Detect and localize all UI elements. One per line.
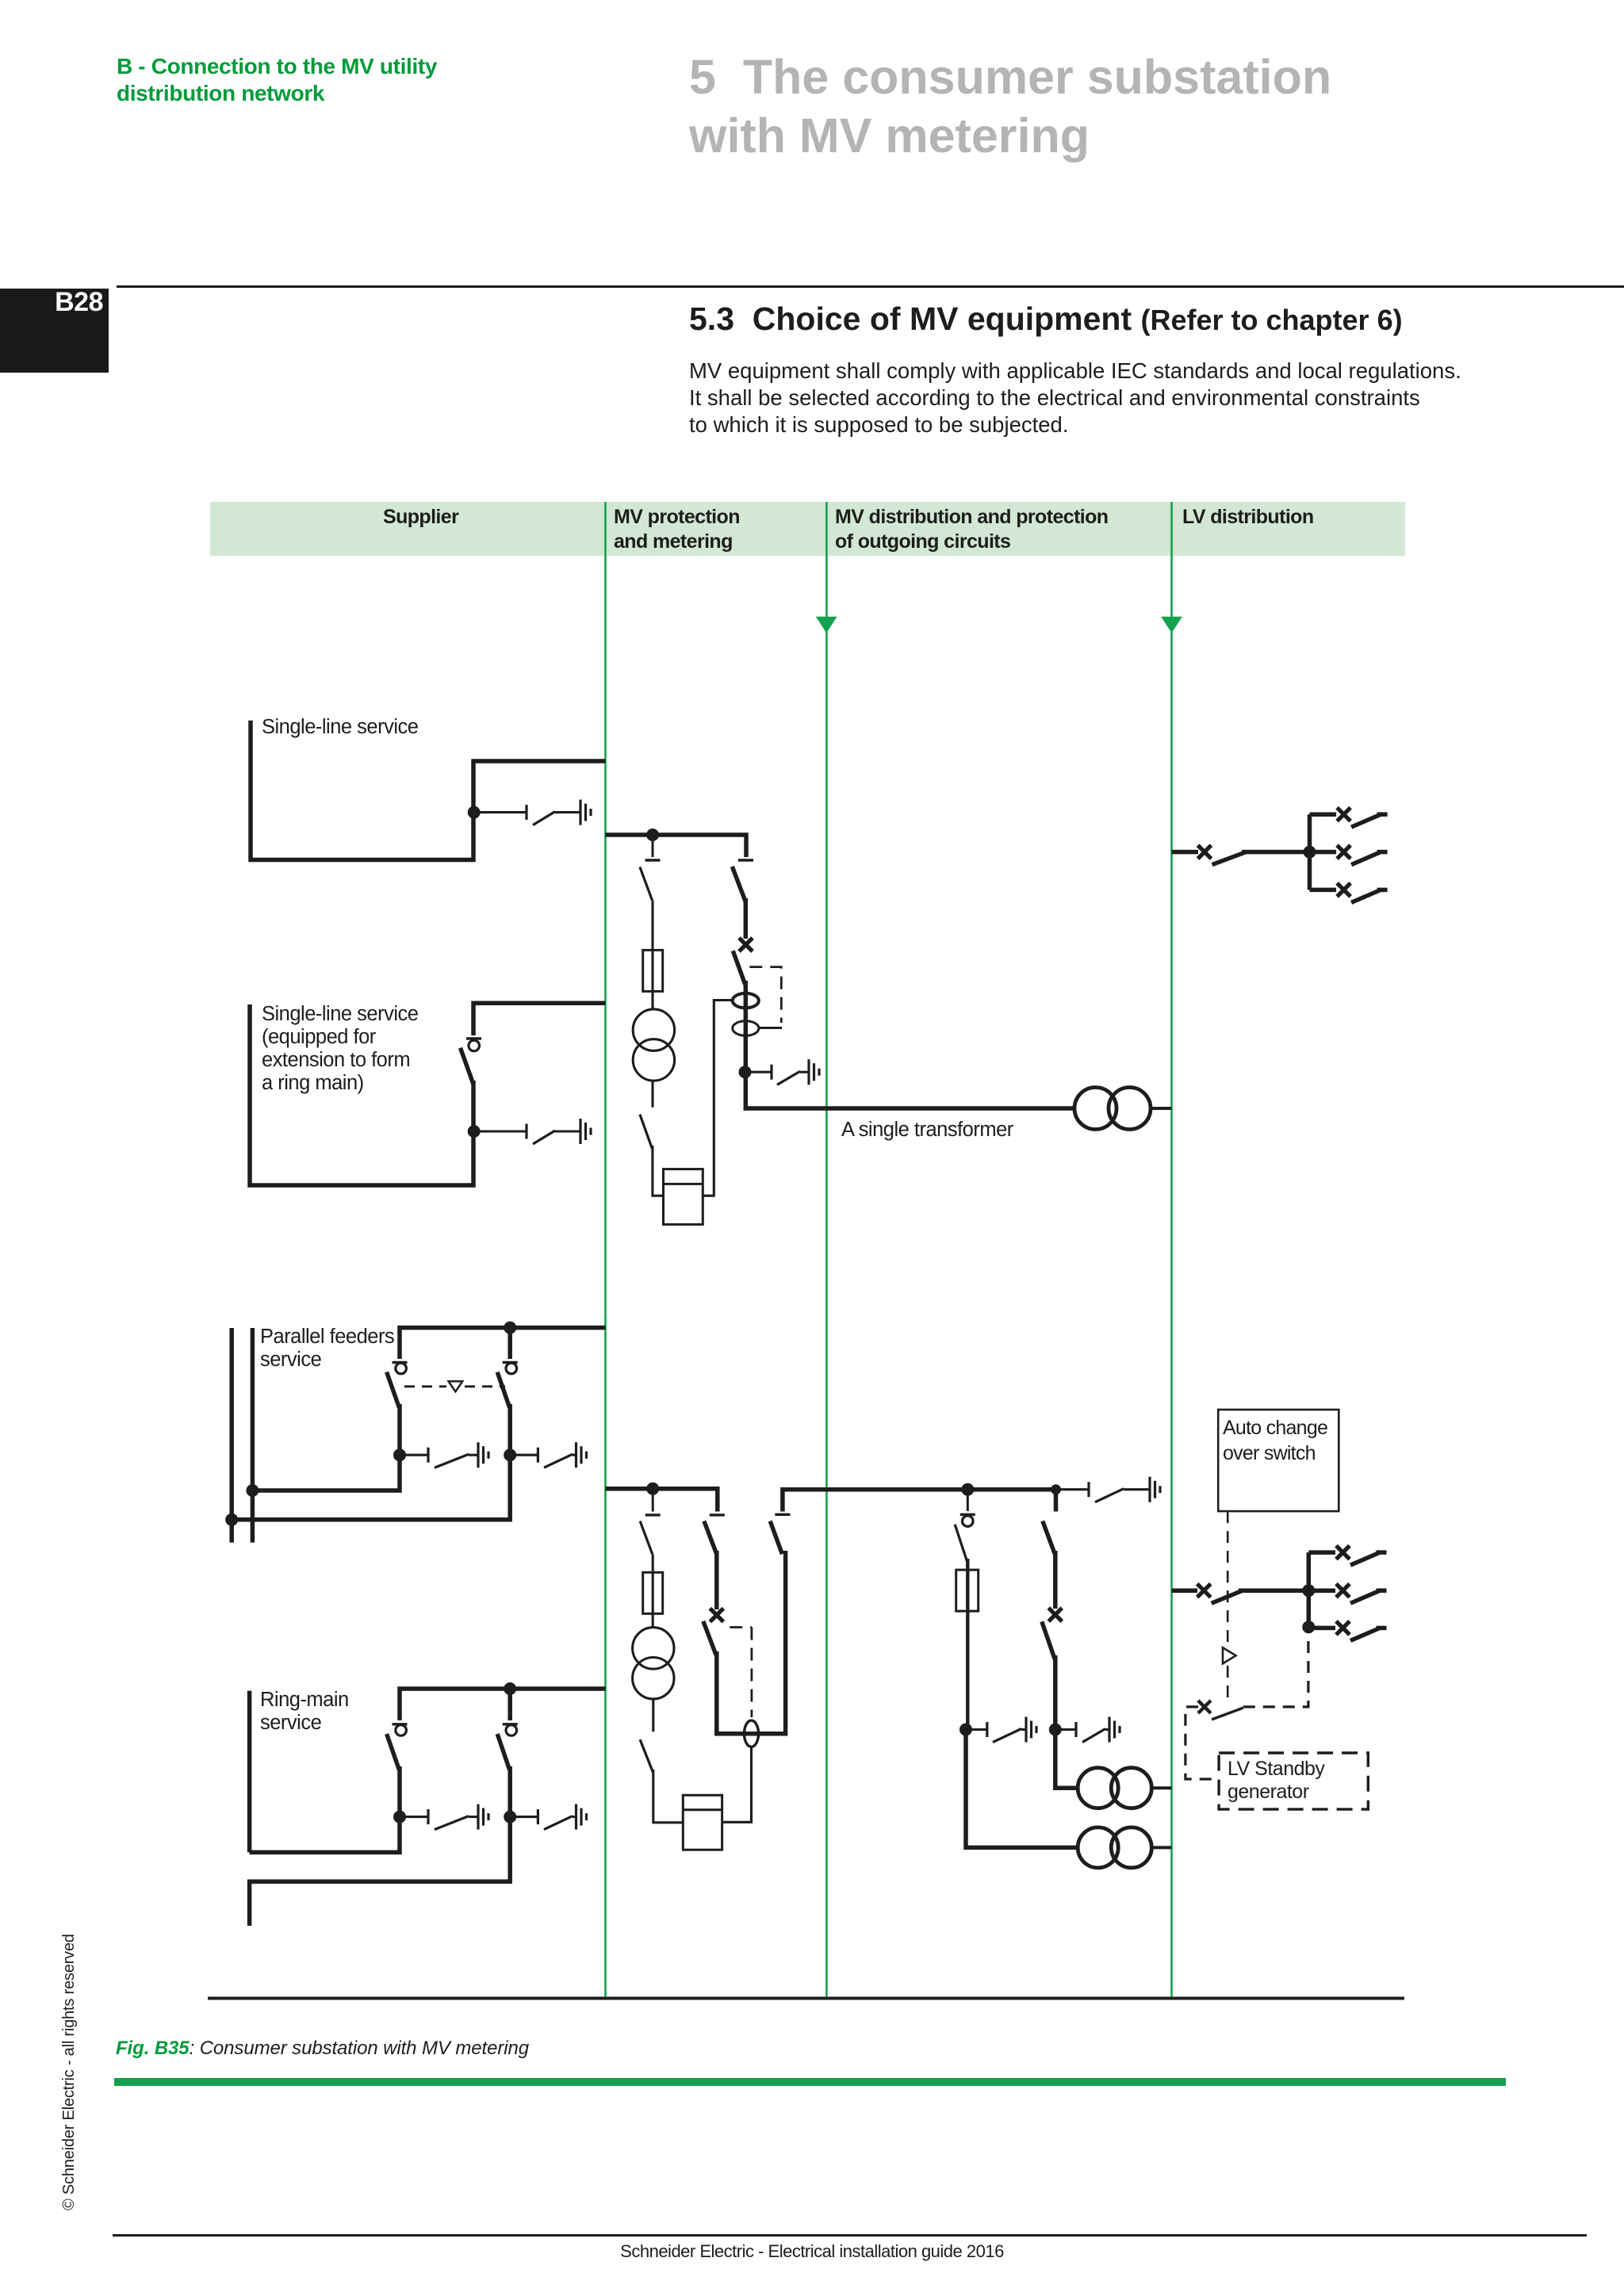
wire: single-line service 2 loop: [250, 1004, 473, 1185]
breaker chain (distribution feeder 2): [1043, 1521, 1055, 1609]
column divider line (Supplier / MV protection): [604, 502, 607, 1998]
wire: feeder 1 to transformer b: [966, 1730, 1078, 1848]
current transformer (row 2): [745, 1720, 759, 1747]
energy meter row 2: [683, 1795, 722, 1850]
node: ring chain B: [504, 1811, 516, 1823]
busbar: MV metering row 1: [606, 835, 747, 857]
transformer a (feeder 2): [1078, 1768, 1151, 1808]
node: parallel chain A: [393, 1448, 406, 1461]
diagram bottom rule: [208, 1997, 1404, 2000]
wire: VT to meter row 2: [653, 1770, 684, 1823]
transformer (single): [1074, 1088, 1151, 1130]
node: LV bus row 2: [1302, 1584, 1315, 1597]
wire: LV bus row 2: [1239, 1588, 1308, 1593]
node: service 2 junction: [468, 1125, 481, 1138]
node: metering bus row 2: [646, 1483, 659, 1495]
disconnector below VT row 2: [640, 1699, 653, 1773]
LV incoming blade row 1: [1212, 852, 1246, 865]
earthing switch (ring chain B): [510, 1804, 586, 1830]
LV feeder 2 (row 2): [1308, 1584, 1386, 1604]
dashed relay boundary row 1: [749, 967, 781, 1023]
earthing switch (service 2): [474, 1119, 591, 1144]
current transformer CT1 row 1: [733, 993, 759, 1008]
switch with open point (parallel chain B): [497, 1362, 518, 1455]
wire: parallel chain A tail: [252, 1455, 400, 1490]
wire: transformer a to LV: [1151, 1786, 1171, 1789]
dashed relay boundary row 2: [730, 1626, 752, 1628]
node: breaker output row 1: [739, 1066, 752, 1078]
breaker X (feeder 2): [1048, 1608, 1062, 1621]
busbar: MV distribution row 2: [783, 1490, 1056, 1512]
busbar: MV metering row 2: [606, 1489, 718, 1512]
fused switch chain (distribution feeder 1): [955, 1490, 975, 1570]
mechanical interlock dashed link: [404, 1385, 446, 1387]
voltage transformer row 2: [633, 1628, 674, 1699]
LV feeder 2 (row 1): [1310, 845, 1388, 865]
CT secondary wire to meter row 1: [703, 1001, 732, 1196]
earthing switch (feeder 1): [966, 1717, 1036, 1743]
junction: chain A tail on feeder B: [246, 1484, 259, 1497]
wire: feeder to single transformer: [745, 1069, 1074, 1108]
node: changeover tap on LV bus: [1302, 1621, 1315, 1633]
node: parallel top bus junction: [504, 1322, 516, 1334]
wire: feeder 2 to transformer a: [1055, 1730, 1078, 1789]
voltage transformer row 1: [633, 1009, 674, 1081]
wire: ring-main top bus: [400, 1689, 606, 1720]
marker triangle on LV distribution divider: [1161, 617, 1182, 633]
wire: ring chain B drop: [507, 1689, 512, 1720]
control dashed line from box: [1227, 1511, 1229, 1644]
riser contact and blade (bus tie row 2): [770, 1514, 790, 1554]
wire: transformer b to LV: [1151, 1846, 1171, 1849]
transformer b (feeder 1): [1078, 1827, 1151, 1868]
LV feeder 1 (row 2): [1308, 1546, 1386, 1566]
switch with open point (ring chain B): [497, 1724, 518, 1817]
switch with open point (ring chain A): [387, 1724, 408, 1817]
LV incoming breaker X row 1: [1198, 845, 1212, 859]
wire: VT to meter row 1: [653, 1146, 664, 1196]
changeover blade: [1212, 1708, 1243, 1720]
node: ring chain A: [393, 1811, 406, 1823]
node: service 1 junction: [468, 806, 481, 819]
wire: service 2 top link: [473, 1003, 606, 1035]
breaker blade (feeder 2): [1042, 1621, 1055, 1659]
CT secondary wire to meter row 2: [722, 1747, 752, 1823]
fuse (VT branch row 1): [643, 950, 663, 1009]
wire: parallel feeder B: [251, 1328, 255, 1543]
wire: parallel chain B drop: [507, 1328, 512, 1359]
earthing switch (distribution bus row 2): [1056, 1477, 1161, 1502]
LV feeder 3 (row 1): [1310, 883, 1388, 903]
wire: transformer to LV column: [1151, 1107, 1172, 1110]
current transformer CT2 row 1: [733, 1021, 759, 1035]
wire: breaker U-link row 2: [717, 1551, 786, 1734]
LV standby generator dashed box: [1219, 1753, 1368, 1809]
wire: LV riser row 1: [1308, 814, 1312, 890]
wire: single-line service incoming: [251, 721, 606, 860]
column divider line (MV protection / MV distribution): [825, 502, 828, 1998]
node: parallel chain B: [504, 1448, 516, 1461]
node: LV bus row 1: [1304, 846, 1316, 859]
node: distribution bus right end: [1051, 1484, 1061, 1494]
breaker X row 1: [739, 938, 753, 951]
node: metering bus row 1: [646, 828, 659, 841]
node: ring top bus junction: [504, 1682, 516, 1695]
earthing switch (service 1): [474, 800, 591, 825]
wire: parallel feeder A: [229, 1328, 234, 1543]
disconnector switch (service 2): [461, 1039, 482, 1131]
wire: parallel chain B tail: [232, 1455, 510, 1520]
disconnector below VT row 1: [640, 1081, 653, 1149]
wire: feeder 2 down: [1053, 1655, 1058, 1730]
control arrow triangle: [1223, 1647, 1236, 1663]
switch with open point (parallel chain A): [387, 1362, 408, 1455]
LV incoming blade row 2: [1212, 1591, 1243, 1604]
node: distribution feeder 1 tap: [961, 1483, 974, 1496]
node: feeder 2 earthing point: [1049, 1724, 1062, 1736]
circuit-breaker branch row 2: contact and blade: [704, 1515, 725, 1609]
column divider line (MV distribution / LV distribution): [1170, 502, 1173, 1998]
LV incoming row 2: [1172, 1588, 1198, 1593]
earthing switch (parallel chain A): [400, 1442, 488, 1468]
breaker X row 2: [710, 1609, 723, 1622]
fuse (distribution feeder 1): [956, 1570, 979, 1611]
node: feeder 1 earthing point: [959, 1724, 972, 1736]
CT2 secondary stub row 1: [759, 1027, 782, 1029]
wire: ring-main incoming: [247, 1691, 252, 1853]
earthing switch (parallel chain B): [510, 1442, 586, 1468]
earthing switch (transformer feeder row 1): [745, 1059, 820, 1085]
wire: ring chain B tail and stub: [250, 1817, 511, 1926]
earthing switch (ring chain A): [400, 1804, 488, 1830]
fuse (VT branch row 2): [643, 1572, 663, 1628]
LV feeder 1 (row 1): [1310, 808, 1388, 827]
disconnector (VT branch row 2): [640, 1489, 661, 1573]
interlock triangle: [449, 1381, 463, 1391]
auto changeover switch box: [1218, 1410, 1339, 1511]
LV incoming breaker X row 2: [1197, 1584, 1211, 1598]
wire: LV riser row 2: [1307, 1552, 1312, 1628]
marker triangle on MV distribution divider: [816, 617, 837, 633]
junction: chain B tail on feeder A: [225, 1513, 238, 1526]
control dashed line to changeover: [1227, 1666, 1229, 1703]
wire: feeder 1 down: [966, 1611, 969, 1729]
energy meter row 1: [664, 1169, 703, 1225]
breaker blade row 2: [703, 1621, 716, 1655]
breaker blade row 1: [733, 951, 745, 1072]
wire: parallel feeders top bus: [400, 1328, 606, 1359]
circuit-breaker branch row 1: contact and blade: [732, 860, 753, 939]
dashed link: changeover to LV bus tap: [1243, 1632, 1308, 1707]
wire: LV bus row 1: [1242, 850, 1310, 855]
LV incoming row 1: [1172, 850, 1199, 855]
earthing switch (feeder 2): [1055, 1717, 1120, 1743]
dashed feeder from generator: [1185, 1707, 1218, 1779]
LV feeder 3 (row 2): [1308, 1621, 1386, 1640]
wire: ring chain A tail: [250, 1817, 400, 1853]
disconnector (VT branch row 1): [640, 835, 661, 950]
generator breaker X: [1198, 1701, 1211, 1713]
